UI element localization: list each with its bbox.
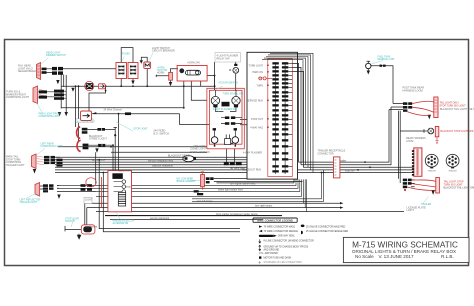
svg-text:MOTOR FUSE AND DASH: MOTOR FUSE AND DASH: [264, 257, 292, 260]
svg-text:R.L.B.: R.L.B.: [441, 254, 454, 259]
svg-text:STOP OUT: STOP OUT: [251, 118, 264, 121]
svg-text:LIGHT: LIGHT: [407, 209, 415, 212]
svg-text:SENDING UNIT: SENDING UNIT: [378, 58, 396, 61]
svg-text:service tail lamps: service tail lamps: [150, 217, 170, 220]
svg-text:BRAKE SWITCH: BRAKE SWITCH: [177, 180, 195, 183]
svg-text:4-WAY HAZ: 4-WAY HAZ: [250, 126, 263, 129]
svg-text:turn left lamps: turn left lamps: [197, 200, 213, 203]
svg-text:COMPOSITE LIGHT: COMPOSITE LIGHT: [41, 145, 64, 148]
svg-text:stop lamps: stop lamps: [85, 226, 98, 229]
svg-text:stop: stop: [126, 186, 131, 189]
svg-text:4-WAY FLASHER IND: 4-WAY FLASHER IND: [213, 108, 237, 111]
svg-text:front marker & blackout marker: front marker & blackout marker lamps: [216, 213, 258, 216]
svg-text:BLACKOUT: BLACKOUT: [92, 159, 106, 162]
svg-text:IN LINE CONNECTOR 1M WEAD CONN: IN LINE CONNECTOR 1M WEAD CONNECTOR: [264, 240, 315, 243]
svg-text:GROUND VIA TO CHASSIS BODY PRO: GROUND VIA TO CHASSIS BODY PROSS: [264, 246, 309, 249]
svg-text:V. 13 JUNE 2017: V. 13 JUNE 2017: [378, 254, 414, 259]
svg-text:FUSES: FUSES: [122, 53, 130, 56]
svg-text:STOP LIGHT: STOP LIGHT: [134, 128, 149, 131]
svg-text:BLACKOUT TAIL LIGHT ONLY: BLACKOUT TAIL LIGHT ONLY: [444, 187, 474, 190]
svg-text:4 DOOR SWITCH: 4 DOOR SWITCH: [219, 82, 239, 85]
svg-text:No Scale: No Scale: [355, 254, 374, 259]
svg-text:RELAY 24V: RELAY 24V: [217, 58, 230, 61]
svg-text:LIGHT: LIGHT: [85, 199, 93, 202]
svg-text:service headlamp feed: service headlamp feed: [148, 159, 174, 162]
svg-text:brake light switch feed: brake light switch feed: [218, 189, 243, 192]
svg-text:blackout headlamp: blackout headlamp: [152, 165, 174, 168]
svg-text:ONE WAY SEAL: ONE WAY SEAL: [278, 235, 296, 238]
svg-text:SERVICE RUN: SERVICE RUN: [247, 99, 264, 102]
svg-text:AND GROUND: AND GROUND: [264, 248, 280, 251]
svg-text:SEALED BEAM: SEALED BEAM: [18, 70, 36, 73]
svg-text:HORN 24V: HORN 24V: [188, 62, 201, 65]
svg-text:76 WIRE CONNECTOR MALE: 76 WIRE CONNECTOR MALE: [264, 226, 296, 229]
svg-text:BUTTON: BUTTON: [158, 69, 168, 72]
svg-text:ALTERNATOR: ALTERNATOR: [113, 222, 129, 225]
svg-text:BLACKOUT STOP LIGHT ONLY: BLACKOUT STOP LIGHT ONLY: [441, 130, 474, 133]
svg-text:B.O. DRIVE LIGHT: B.O. DRIVE LIGHT: [77, 121, 96, 123]
svg-text:LOOM: LOOM: [406, 140, 413, 143]
svg-text:PARK ON: PARK ON: [252, 71, 263, 74]
svg-text:DASH LIGHT 24V: DASH LIGHT 24V: [190, 151, 210, 154]
svg-text:COMPOSITE LIGHT: COMPOSITE LIGHT: [6, 96, 30, 99]
svg-text:WIRE CONNECTOR LEGEND: WIRE CONNECTOR LEGEND: [257, 218, 293, 222]
svg-text:4-WAY FLASHER: 4-WAY FLASHER: [243, 151, 262, 154]
svg-text:turn right lamps: turn right lamps: [255, 205, 273, 208]
svg-text:STREET LIGHT: STREET LIGHT: [89, 138, 107, 141]
svg-text:TRAILER LIGHT: TRAILER LIGHT: [20, 201, 38, 204]
svg-text:CYL. AMP RATED: CYL. AMP RATED: [259, 252, 278, 255]
svg-text:BLACKOUT DRIVE: BLACKOUT DRIVE: [168, 154, 190, 157]
svg-text:TRAILER LIGHT: TRAILER LIGHT: [6, 164, 25, 167]
svg-text:stop turn: stop turn: [345, 170, 355, 173]
svg-text:B.O. SWITCH: B.O. SWITCH: [154, 132, 170, 135]
svg-text:DIMMER SWITCH: DIMMER SWITCH: [46, 54, 66, 57]
svg-text:76 WIRE CONNECTOR FEMALE: 76 WIRE CONNECTOR FEMALE: [264, 230, 299, 233]
svg-text:TRAILER: TRAILER: [427, 170, 436, 173]
svg-text:SWITCH: SWITCH: [65, 220, 75, 223]
svg-text:COMPOSITE LIGHT: COMPOSITE LIGHT: [39, 115, 62, 118]
svg-text:turn signal flasher feed: turn signal flasher feed: [230, 183, 256, 186]
svg-text:TURN LIGHT: TURN LIGHT: [249, 64, 264, 67]
svg-text:CONNECTOR: CONNECTOR: [318, 152, 334, 155]
svg-text:CIRCUIT BREAKER: CIRCUIT BREAKER: [152, 50, 175, 53]
svg-text:STANDARD OF LED CONNECTORS: STANDARD OF LED CONNECTORS: [264, 261, 303, 264]
svg-text:25 GAUGE CONNECTOR FEMALE RED: 25 GAUGE CONNECTOR FEMALE RED: [306, 230, 349, 233]
svg-text:tail lamp feed: tail lamp feed: [230, 167, 245, 170]
svg-text:TURN SIGNAL IND: TURN SIGNAL IND: [223, 93, 244, 96]
svg-text:TURN: TURN: [256, 84, 263, 87]
svg-text:TRAILER: TRAILER: [448, 170, 457, 173]
svg-text:trailer: trailer: [340, 159, 346, 162]
svg-text:BLACKOUT TAIL LIGHT ONLY: BLACKOUT TAIL LIGHT ONLY: [440, 108, 474, 111]
svg-text:marker feed: marker feed: [118, 170, 132, 173]
svg-text:STOP TURN SIG LIGHT: STOP TURN SIG LIGHT: [440, 105, 467, 108]
svg-text:25 GAUGE CONNECTOR MALE RED: 25 GAUGE CONNECTOR MALE RED: [306, 226, 346, 229]
svg-text:HARNESS LOOM: HARNESS LOOM: [403, 89, 423, 92]
svg-text:24 Wire Chassis: 24 Wire Chassis: [104, 109, 123, 112]
svg-text:TRAILER: TRAILER: [421, 203, 431, 206]
